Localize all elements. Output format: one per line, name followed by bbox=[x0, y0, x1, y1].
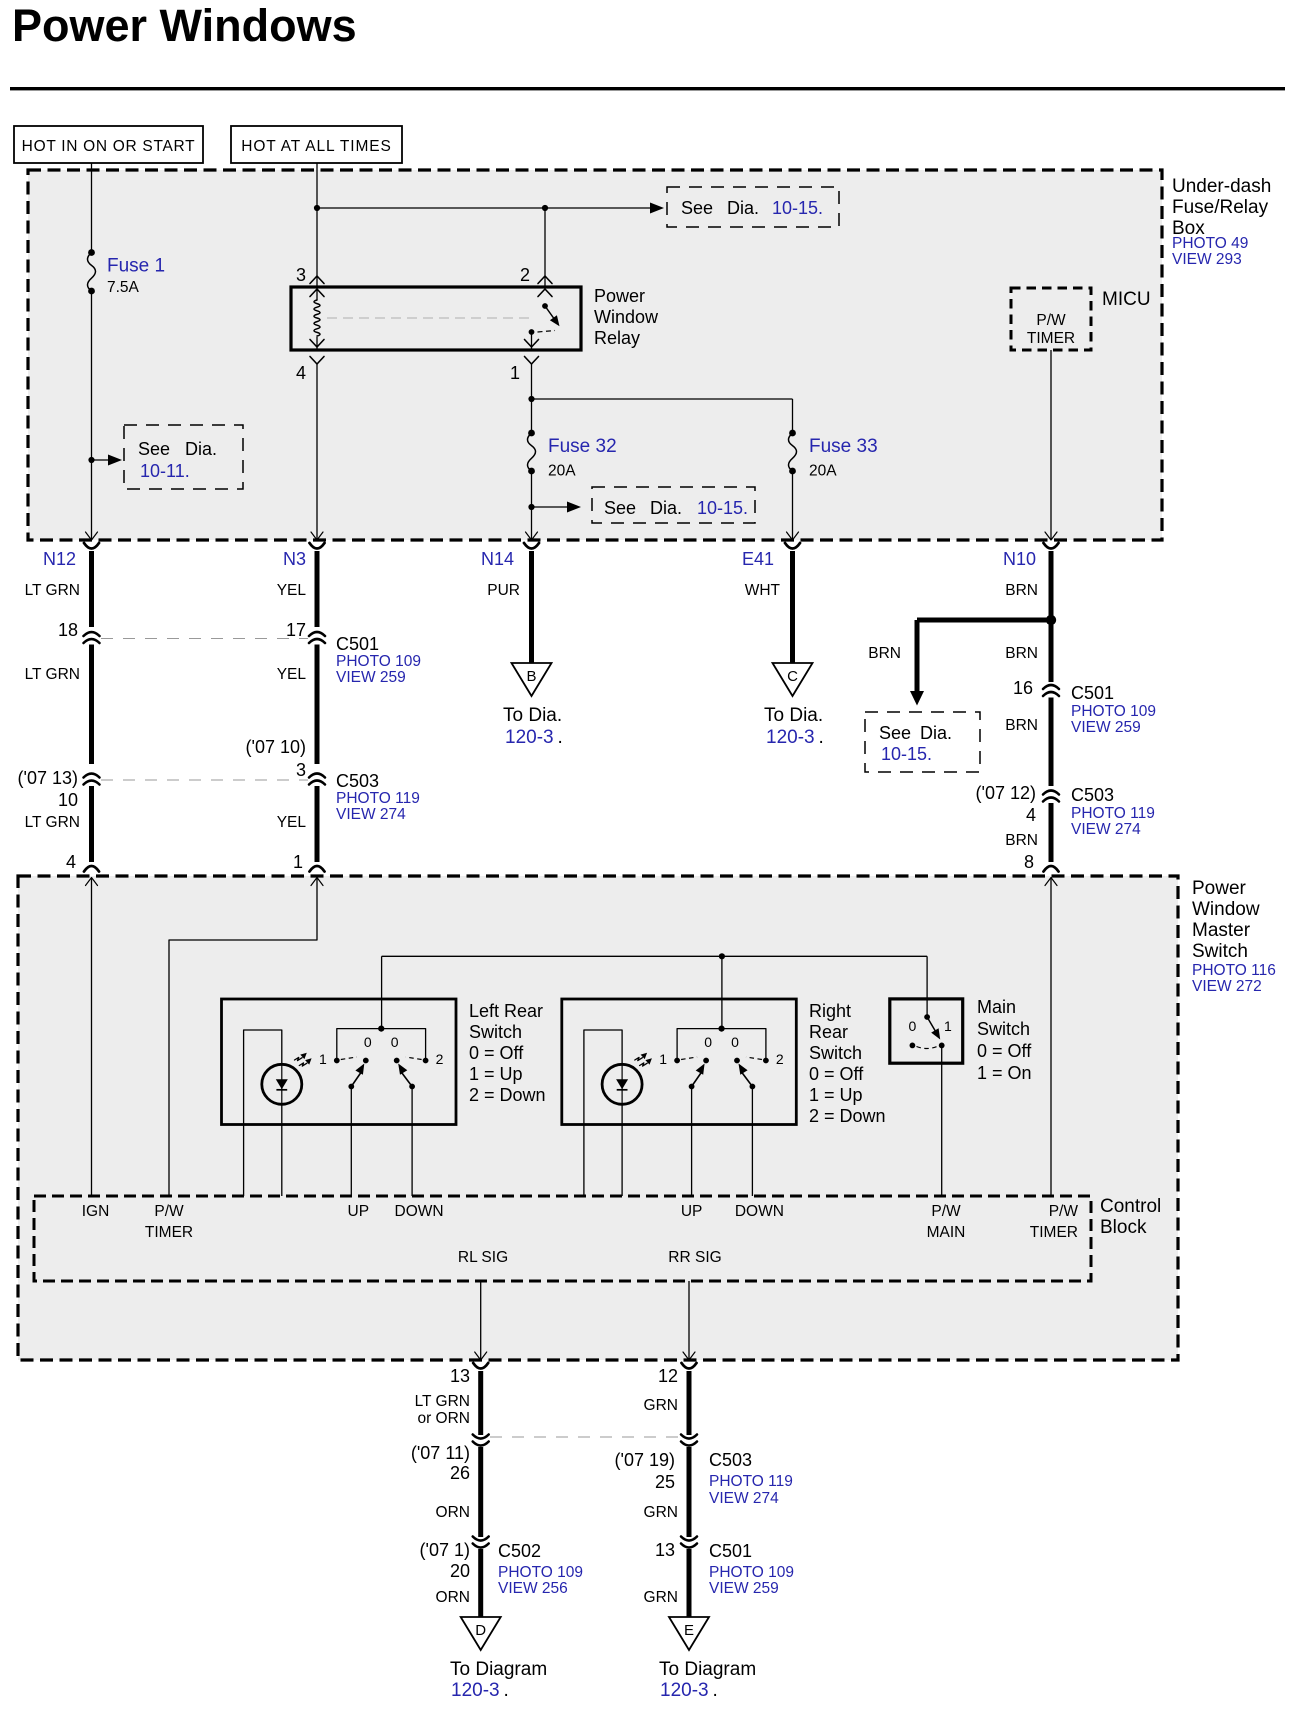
illumination lamp with diode bbox=[262, 1064, 302, 1104]
wire Fuse 1 to N12 exit bbox=[91, 291, 93, 540]
border arrowhead at x=531.5 bbox=[526, 532, 538, 540]
lever DOWN bbox=[742, 1072, 753, 1087]
wire P/W TIMER right bbox=[1050, 878, 1052, 1196]
lamp bracket bbox=[244, 1030, 282, 1196]
svg-text:Block: Block bbox=[1100, 1217, 1147, 1238]
wire relay pin 1 down bbox=[531, 364, 533, 433]
lever UP bbox=[692, 1072, 702, 1087]
svg-text:120-3: 120-3 bbox=[505, 727, 554, 748]
svg-text:120-3: 120-3 bbox=[660, 1680, 709, 1701]
svg-text:TIMER: TIMER bbox=[1027, 330, 1075, 347]
wire relay pin 4 down to N3 exit bbox=[316, 364, 318, 540]
svg-text:See: See bbox=[138, 439, 170, 459]
svg-text:VIEW 259: VIEW 259 bbox=[336, 669, 406, 686]
svg-text:.: . bbox=[819, 727, 824, 748]
svg-text:C501: C501 bbox=[1071, 683, 1114, 703]
svg-text:GRN: GRN bbox=[644, 1504, 678, 1521]
junction pin1 branch bbox=[528, 396, 534, 402]
svg-text:('07 10): ('07 10) bbox=[246, 737, 306, 757]
wire P/W MAIN bbox=[941, 1045, 943, 1196]
illumination arrows bbox=[635, 1057, 643, 1060]
svg-text:D: D bbox=[475, 1622, 486, 1639]
svg-text:C503: C503 bbox=[709, 1450, 752, 1470]
svg-text:2: 2 bbox=[776, 1051, 784, 1067]
svg-text:10-15.: 10-15. bbox=[772, 198, 823, 218]
svg-text:HOT AT ALL TIMES: HOT AT ALL TIMES bbox=[241, 138, 392, 155]
svg-text:20: 20 bbox=[450, 1561, 470, 1581]
svg-text:See: See bbox=[879, 723, 911, 743]
svg-text:C: C bbox=[787, 668, 798, 685]
svg-text:Power: Power bbox=[594, 286, 645, 306]
svg-text:20A: 20A bbox=[809, 463, 837, 480]
svg-text:To Dia.: To Dia. bbox=[764, 705, 823, 726]
svg-text:Switch: Switch bbox=[1192, 941, 1248, 962]
power window relay box bbox=[291, 287, 581, 350]
svg-text:BRN: BRN bbox=[1005, 582, 1038, 599]
label box HOT AT ALL TIMES bbox=[231, 126, 402, 163]
svg-text:26: 26 bbox=[450, 1463, 470, 1483]
wire RR SIG bbox=[688, 1281, 690, 1360]
lever UP bbox=[351, 1072, 361, 1087]
junction N10 branch bbox=[1046, 615, 1056, 625]
svg-text:P/W: P/W bbox=[154, 1203, 184, 1220]
svg-text:7.5A: 7.5A bbox=[107, 279, 140, 296]
svg-text:2: 2 bbox=[436, 1051, 444, 1067]
svg-text:ORN: ORN bbox=[436, 1504, 470, 1521]
svg-text:VIEW 274: VIEW 274 bbox=[336, 806, 406, 823]
svg-text:('07 12): ('07 12) bbox=[976, 783, 1036, 803]
wire HOT AT ALL TIMES down to relay pin 3 bbox=[316, 163, 318, 287]
svg-text:Relay: Relay bbox=[594, 328, 640, 348]
svg-text:10-15.: 10-15. bbox=[697, 498, 748, 518]
relay switch contact bbox=[542, 303, 548, 309]
relay internal dashed link bbox=[327, 317, 535, 319]
svg-text:GRN: GRN bbox=[644, 1397, 678, 1414]
svg-text:PHOTO 109: PHOTO 109 bbox=[1071, 703, 1156, 720]
relay pin 1 terminal bbox=[525, 340, 539, 348]
wire 13 (LT GRN or ORN) bbox=[473, 1363, 488, 1369]
main switch contacts bbox=[924, 1014, 930, 1020]
border arrowhead at x=317 bbox=[311, 532, 323, 540]
fuse F32 20A bbox=[528, 430, 535, 437]
svg-text:Dia.: Dia. bbox=[650, 498, 682, 518]
svg-text:To Diagram: To Diagram bbox=[659, 1659, 756, 1680]
svg-text:UP: UP bbox=[348, 1203, 370, 1220]
svg-text:RR SIG: RR SIG bbox=[668, 1249, 721, 1266]
svg-text:Fuse/Relay: Fuse/Relay bbox=[1172, 197, 1269, 218]
svg-text:Window: Window bbox=[1192, 899, 1260, 920]
lamp bracket bbox=[584, 1030, 622, 1196]
svg-text:To Dia.: To Dia. bbox=[503, 705, 562, 726]
svg-text:PHOTO 109: PHOTO 109 bbox=[709, 1564, 794, 1581]
svg-text:VIEW 256: VIEW 256 bbox=[498, 1580, 568, 1597]
switch contact bracket bbox=[337, 1029, 426, 1061]
svg-text:VIEW 259: VIEW 259 bbox=[709, 1580, 779, 1597]
svg-text:0 = Off: 0 = Off bbox=[977, 1041, 1032, 1061]
svg-text:Control: Control bbox=[1100, 1196, 1161, 1217]
svg-text:PHOTO 119: PHOTO 119 bbox=[1071, 805, 1155, 822]
svg-text:Main: Main bbox=[977, 997, 1016, 1017]
svg-text:N12: N12 bbox=[43, 549, 76, 569]
svg-text:PHOTO 49: PHOTO 49 bbox=[1172, 235, 1248, 252]
svg-text:1 = Up: 1 = Up bbox=[809, 1085, 863, 1105]
svg-text:P/W: P/W bbox=[1049, 1203, 1079, 1220]
svg-text:BRN: BRN bbox=[1005, 645, 1038, 662]
svg-text:VIEW 293: VIEW 293 bbox=[1172, 251, 1242, 268]
junction to See Dia 10-11 arrow bbox=[88, 457, 94, 463]
fuse F33 20A bbox=[789, 430, 796, 437]
svg-text:1 = On: 1 = On bbox=[977, 1063, 1032, 1083]
svg-text:LT GRN: LT GRN bbox=[25, 814, 80, 831]
callout See Dia 10-15 lower bbox=[592, 487, 755, 523]
contact dots bbox=[334, 1058, 340, 1064]
border arrowhead at x=91.5 bbox=[86, 532, 98, 540]
wire MICU to N10 exit bbox=[1050, 350, 1052, 540]
connector triangle D bbox=[461, 1617, 501, 1650]
under-dash fuse/relay box bbox=[28, 170, 1162, 540]
svg-text:YEL: YEL bbox=[277, 582, 307, 599]
wire N10 (BRN) bbox=[1044, 543, 1059, 549]
svg-text:VIEW 259: VIEW 259 bbox=[1071, 719, 1141, 736]
relay pin 2 terminal bbox=[538, 276, 552, 284]
svg-text:YEL: YEL bbox=[277, 666, 307, 683]
bus junction node at y208 bbox=[314, 205, 320, 211]
main switch box bbox=[890, 999, 963, 1063]
connector triangle E bbox=[669, 1617, 709, 1650]
svg-text:Fuse 1: Fuse 1 bbox=[107, 256, 165, 277]
svg-text:See: See bbox=[681, 198, 713, 218]
svg-text:N14: N14 bbox=[481, 549, 514, 569]
border arrowhead at x=1051 bbox=[1045, 532, 1057, 540]
svg-text:N3: N3 bbox=[283, 549, 306, 569]
svg-text:P/W: P/W bbox=[1036, 312, 1066, 329]
svg-text:Rear: Rear bbox=[809, 1022, 848, 1042]
junction to See Dia 10-15 arrow bbox=[528, 504, 534, 510]
svg-text:See: See bbox=[604, 498, 636, 518]
svg-text:C502: C502 bbox=[498, 1541, 541, 1561]
svg-text:BRN: BRN bbox=[868, 645, 901, 662]
svg-text:1 = Up: 1 = Up bbox=[469, 1064, 523, 1084]
wire 12 (GRN) bbox=[682, 1363, 697, 1369]
svg-text:10-11.: 10-11. bbox=[140, 461, 190, 481]
svg-text:LT GRN: LT GRN bbox=[25, 582, 80, 599]
wire IGN bbox=[91, 878, 93, 1196]
contact dots bbox=[674, 1058, 680, 1064]
svg-text:UP: UP bbox=[681, 1203, 703, 1220]
svg-text:VIEW 274: VIEW 274 bbox=[709, 1490, 779, 1507]
svg-text:E: E bbox=[684, 1622, 694, 1639]
svg-text:120-3: 120-3 bbox=[451, 1680, 500, 1701]
svg-text:0 = Off: 0 = Off bbox=[469, 1043, 524, 1063]
svg-text:Dia.: Dia. bbox=[185, 439, 217, 459]
svg-text:To Diagram: To Diagram bbox=[450, 1659, 547, 1680]
svg-text:N10: N10 bbox=[1003, 549, 1036, 569]
svg-text:Right: Right bbox=[809, 1001, 851, 1021]
svg-text:Dia.: Dia. bbox=[727, 198, 759, 218]
svg-text:PHOTO 119: PHOTO 119 bbox=[336, 790, 420, 807]
svg-text:or ORN: or ORN bbox=[417, 1410, 470, 1427]
rear switch box at 561.8 bbox=[562, 999, 797, 1125]
wire N12 (LT GRN) bbox=[84, 543, 99, 549]
svg-text:MAIN: MAIN bbox=[927, 1224, 966, 1241]
svg-text:0: 0 bbox=[364, 1034, 372, 1050]
svg-text:2 = Down: 2 = Down bbox=[469, 1085, 546, 1105]
contact dashed links bbox=[681, 1057, 697, 1060]
svg-text:('07 11): ('07 11) bbox=[411, 1443, 470, 1463]
svg-text:17: 17 bbox=[286, 620, 306, 640]
svg-text:PHOTO 109: PHOTO 109 bbox=[498, 1564, 583, 1581]
wire DOWN to control block bbox=[411, 1087, 413, 1197]
wire UP to control block bbox=[350, 1087, 352, 1197]
svg-text:BRN: BRN bbox=[1005, 717, 1038, 734]
title rule bbox=[10, 87, 1285, 90]
svg-text:Fuse 32: Fuse 32 bbox=[548, 436, 617, 457]
svg-text:25: 25 bbox=[655, 1472, 675, 1492]
svg-text:1: 1 bbox=[659, 1051, 667, 1067]
svg-text:Switch: Switch bbox=[977, 1019, 1030, 1039]
svg-text:13: 13 bbox=[450, 1366, 470, 1386]
wire relay pin 2 up to bus bbox=[544, 208, 546, 287]
illumination lamp with diode bbox=[602, 1064, 642, 1104]
svg-text:4: 4 bbox=[66, 852, 76, 872]
svg-text:.: . bbox=[504, 1680, 509, 1701]
callout See Dia 10-15 branch bbox=[865, 712, 980, 772]
svg-text:Switch: Switch bbox=[809, 1043, 862, 1063]
MICU P/W TIMER box bbox=[1011, 288, 1091, 350]
svg-text:20A: 20A bbox=[548, 463, 576, 480]
svg-text:PUR: PUR bbox=[487, 582, 520, 599]
svg-text:10: 10 bbox=[58, 790, 78, 810]
svg-text:('07 1): ('07 1) bbox=[420, 1540, 470, 1560]
svg-text:E41: E41 bbox=[742, 549, 774, 569]
svg-text:13: 13 bbox=[655, 1540, 675, 1560]
svg-text:.: . bbox=[558, 727, 563, 748]
svg-text:12: 12 bbox=[658, 1366, 678, 1386]
svg-text:.: . bbox=[713, 1680, 718, 1701]
svg-text:IGN: IGN bbox=[82, 1203, 110, 1220]
svg-text:3: 3 bbox=[296, 265, 306, 285]
svg-text:18: 18 bbox=[58, 620, 78, 640]
svg-text:4: 4 bbox=[296, 363, 306, 383]
connector triangle B bbox=[512, 663, 552, 696]
wire DOWN to control block bbox=[751, 1087, 753, 1197]
svg-text:1: 1 bbox=[319, 1051, 327, 1067]
svg-text:DOWN: DOWN bbox=[735, 1203, 784, 1220]
svg-text:Switch: Switch bbox=[469, 1022, 522, 1042]
svg-text:VIEW 274: VIEW 274 bbox=[1071, 821, 1141, 838]
rear switch box at 221.5 bbox=[222, 999, 457, 1125]
svg-text:RL SIG: RL SIG bbox=[458, 1249, 508, 1266]
entry arrowheads master switch bbox=[86, 878, 98, 886]
wire N3 (YEL) bbox=[310, 543, 325, 549]
svg-text:C503: C503 bbox=[1071, 785, 1114, 805]
svg-text:DOWN: DOWN bbox=[395, 1203, 444, 1220]
svg-text:PHOTO 119: PHOTO 119 bbox=[709, 1473, 793, 1490]
svg-text:16: 16 bbox=[1013, 678, 1033, 698]
contact dashed links bbox=[341, 1057, 357, 1060]
svg-text:0 = Off: 0 = Off bbox=[809, 1064, 864, 1084]
svg-text:C501: C501 bbox=[336, 634, 379, 654]
svg-text:0: 0 bbox=[391, 1034, 399, 1050]
svg-text:Dia.: Dia. bbox=[920, 723, 952, 743]
callout See Dia 10-11 bbox=[124, 425, 243, 489]
svg-text:8: 8 bbox=[1024, 852, 1034, 872]
bus to switches bbox=[382, 955, 928, 957]
svg-text:0: 0 bbox=[704, 1034, 712, 1050]
svg-text:VIEW 272: VIEW 272 bbox=[1192, 978, 1262, 995]
arrow to See Dia 10-15 top bbox=[650, 203, 664, 214]
svg-text:PHOTO 116: PHOTO 116 bbox=[1192, 962, 1276, 979]
svg-text:Under-dash: Under-dash bbox=[1172, 176, 1271, 197]
wire E41 (WHT) bbox=[785, 543, 800, 549]
border arrowhead at x=792.5 bbox=[787, 532, 799, 540]
power window master switch box bbox=[18, 876, 1178, 1360]
label box HOT IN ON OR START bbox=[14, 126, 203, 163]
svg-text:C501: C501 bbox=[709, 1541, 752, 1561]
svg-text:Power Windows: Power Windows bbox=[12, 0, 357, 51]
switch contact bracket bbox=[677, 1029, 766, 1061]
svg-text:TIMER: TIMER bbox=[1030, 1224, 1078, 1241]
svg-text:Left Rear: Left Rear bbox=[469, 1001, 543, 1021]
wire HOT IN ON OR START to Fuse 1 bbox=[91, 163, 93, 253]
pair dashed line ('07 11) row bbox=[490, 1436, 680, 1438]
svg-text:Window: Window bbox=[594, 307, 659, 327]
wire P/W TIMER from pin1 bbox=[169, 878, 317, 1196]
relay pin 3 terminal bbox=[310, 276, 324, 284]
svg-text:4: 4 bbox=[1026, 805, 1036, 825]
svg-text:2: 2 bbox=[520, 265, 530, 285]
svg-text:('07 13): ('07 13) bbox=[18, 768, 78, 788]
svg-text:MICU: MICU bbox=[1102, 289, 1151, 310]
svg-text:Fuse 33: Fuse 33 bbox=[809, 436, 878, 457]
svg-text:GRN: GRN bbox=[644, 1589, 678, 1606]
svg-text:LT GRN: LT GRN bbox=[415, 1393, 470, 1410]
svg-text:B: B bbox=[526, 668, 536, 685]
svg-text:P/W: P/W bbox=[931, 1203, 961, 1220]
fuse F1 7.5A bbox=[88, 249, 95, 256]
svg-text:TIMER: TIMER bbox=[145, 1224, 193, 1241]
svg-text:1: 1 bbox=[510, 363, 520, 383]
svg-text:0: 0 bbox=[731, 1034, 739, 1050]
wire RL SIG bbox=[480, 1281, 482, 1360]
control block box bbox=[34, 1196, 1091, 1281]
svg-text:0: 0 bbox=[909, 1018, 917, 1034]
wire N14 (PUR) bbox=[524, 543, 539, 549]
svg-text:WHT: WHT bbox=[745, 582, 781, 599]
svg-text:1: 1 bbox=[944, 1018, 952, 1034]
svg-text:YEL: YEL bbox=[277, 814, 307, 831]
svg-text:10-15.: 10-15. bbox=[881, 744, 932, 764]
svg-text:Power: Power bbox=[1192, 878, 1247, 899]
relay coil bbox=[316, 290, 318, 300]
callout See Dia 10-15 top bbox=[667, 187, 839, 227]
wire UP to control block bbox=[691, 1087, 693, 1197]
illumination arrows bbox=[295, 1057, 303, 1060]
lever DOWN bbox=[401, 1072, 412, 1087]
svg-text:Master: Master bbox=[1192, 920, 1251, 941]
pair dashed line C501 row bbox=[101, 638, 308, 640]
wire fuse 33 to E41 exit bbox=[792, 471, 794, 540]
svg-text:ORN: ORN bbox=[436, 1589, 470, 1606]
pair dashed line C503 row bbox=[101, 779, 308, 781]
svg-text:C503: C503 bbox=[336, 771, 379, 791]
connector triangle C bbox=[773, 663, 813, 696]
wire fuse 32 to N14 exit bbox=[531, 471, 533, 540]
svg-text:BRN: BRN bbox=[1005, 832, 1038, 849]
svg-text:1: 1 bbox=[293, 852, 303, 872]
svg-text:LT GRN: LT GRN bbox=[25, 666, 80, 683]
relay pin 4 terminal bbox=[310, 340, 324, 348]
svg-text:HOT IN ON OR START: HOT IN ON OR START bbox=[22, 138, 196, 155]
svg-text:3: 3 bbox=[296, 760, 306, 780]
svg-text:PHOTO 109: PHOTO 109 bbox=[336, 653, 421, 670]
svg-text:120-3: 120-3 bbox=[766, 727, 815, 748]
svg-text:2 = Down: 2 = Down bbox=[809, 1106, 886, 1126]
svg-text:('07 19): ('07 19) bbox=[615, 1450, 675, 1470]
